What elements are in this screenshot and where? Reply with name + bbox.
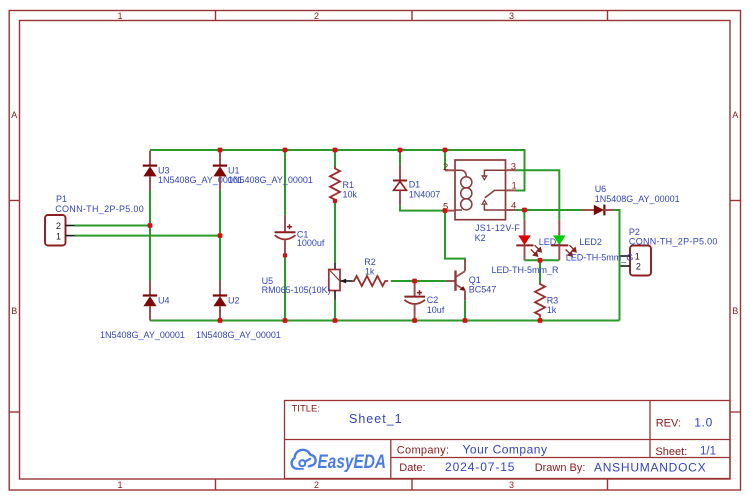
wire R3 bottom	[539, 318, 541, 321]
junction U1 top rail	[218, 148, 223, 153]
pin 1 of P1	[66, 235, 75, 237]
svg-text:10k: 10k	[343, 190, 358, 200]
junction C2 bottom rail	[412, 318, 417, 323]
pin 4 of K2 contact	[506, 209, 516, 211]
pin 2 of P2	[621, 265, 631, 267]
svg-text:10uf: 10uf	[427, 305, 445, 315]
diode U1	[213, 151, 313, 191]
LED LED1	[492, 220, 562, 275]
svg-text:B: B	[732, 306, 738, 316]
svg-text:Date:: Date:	[399, 462, 425, 474]
svg-text:P1: P1	[56, 194, 67, 204]
svg-text:JS1-12V-F: JS1-12V-F	[475, 223, 520, 233]
svg-text:REV:: REV:	[656, 418, 681, 430]
pin 3 of K2 contact	[506, 169, 516, 171]
transistor Q1	[446, 260, 497, 301]
svg-text:1: 1	[117, 480, 122, 490]
svg-text:B: B	[11, 306, 17, 316]
svg-text:R1: R1	[343, 180, 355, 190]
svg-text:RM065-105(10K): RM065-105(10K)	[262, 285, 331, 295]
emission arrows of LED1	[531, 245, 542, 256]
svg-text:1N5408G_AY_00001: 1N5408G_AY_00001	[595, 194, 680, 204]
junction U5 bottom rail	[333, 318, 338, 323]
svg-text:LED2: LED2	[579, 237, 602, 247]
svg-text:2: 2	[443, 162, 448, 173]
wire D1 top	[399, 150, 401, 165]
svg-text:2: 2	[314, 480, 319, 490]
junction C1 top rail	[283, 148, 288, 153]
svg-text:CONN-TH_2P-P5.00: CONN-TH_2P-P5.00	[55, 204, 144, 214]
svg-text:R3: R3	[547, 295, 559, 305]
wire relay pin3 to LED2	[516, 170, 560, 220]
coil of K2	[455, 170, 472, 210]
wire C1 top	[284, 150, 286, 215]
svg-text:U1: U1	[228, 166, 240, 176]
junction Q1 emitter bottom rail	[463, 318, 468, 323]
svg-text:3: 3	[509, 11, 514, 21]
wire R1 to U5	[334, 201, 336, 263]
wire relay pin5 to Q1 collector	[445, 211, 465, 261]
pin 2 of P1	[66, 225, 75, 227]
junction K2 pin2 top rail	[443, 148, 448, 153]
wire U5 bottom	[334, 300, 336, 321]
svg-text:1: 1	[117, 11, 122, 21]
svg-text:R2: R2	[364, 257, 376, 267]
svg-text:3: 3	[511, 162, 516, 173]
svg-text:Sheet_1: Sheet_1	[349, 412, 403, 426]
wire bottom rail	[150, 320, 620, 322]
svg-text:U3: U3	[158, 166, 170, 176]
svg-text:LED-TH-5mm_R: LED-TH-5mm_R	[492, 265, 560, 275]
wire D1 bottom to relay pin5	[400, 205, 445, 210]
svg-text:A: A	[11, 110, 17, 120]
svg-text:Company:: Company:	[397, 444, 450, 456]
resistor R3	[535, 283, 558, 318]
svg-text:ANSHUMANDOCX: ANSHUMANDOCX	[594, 461, 706, 475]
junction R1 top rail	[333, 148, 338, 153]
wire U6 to P2 and bottom rail	[614, 210, 619, 321]
diode U2	[196, 281, 281, 341]
pin 1 of K2 contact arm	[506, 189, 516, 191]
svg-text:EasyEDA: EasyEDA	[318, 452, 387, 473]
wiper arrow of U5	[341, 280, 353, 282]
wire bridge left column	[149, 191, 151, 281]
svg-text:Sheet:: Sheet:	[655, 446, 687, 458]
connector P1	[45, 194, 144, 246]
svg-text:1: 1	[635, 251, 640, 261]
svg-text:U4: U4	[158, 296, 170, 306]
diode U4	[100, 281, 185, 341]
wire C1 bottom	[284, 255, 286, 320]
svg-text:1k: 1k	[365, 267, 375, 277]
diode U3	[143, 151, 243, 191]
junction C1 bottom rail	[283, 318, 288, 323]
junction P1 pin2 bridge	[148, 223, 153, 228]
junction LED link R3	[538, 258, 543, 263]
resistor R2	[352, 257, 388, 286]
diode U6	[582, 184, 680, 215]
svg-text:Drawn By:: Drawn By:	[535, 462, 586, 474]
svg-text:3: 3	[509, 480, 514, 490]
wire LED1 drop	[523, 210, 525, 220]
capacitor C2	[404, 281, 444, 319]
svg-text:1N5408G_AY_00001: 1N5408G_AY_00001	[100, 330, 185, 340]
svg-text:U2: U2	[228, 296, 240, 306]
emission arrows of LED2	[566, 245, 577, 256]
junction dots	[148, 148, 543, 323]
svg-text:1000uf: 1000uf	[297, 238, 325, 248]
wire LED bottom link	[525, 259, 560, 261]
junction K2 pin4 LED1	[522, 208, 527, 213]
svg-text:1k: 1k	[547, 305, 557, 315]
pin-end dot below C1	[283, 253, 287, 257]
svg-text:C2: C2	[427, 295, 439, 305]
wire C2 bottom tip	[414, 319, 416, 321]
svg-text:2: 2	[56, 221, 61, 231]
junction C2 base wire	[412, 279, 417, 284]
wire R1 top	[334, 150, 336, 167]
diode D1	[393, 165, 440, 206]
wire top rail	[150, 150, 525, 191]
svg-text:2: 2	[314, 11, 319, 21]
svg-text:BC547: BC547	[469, 285, 497, 295]
junction D1 top rail	[398, 148, 403, 153]
pin 2 of K2	[445, 169, 455, 171]
wire P1 pin1 to bridge	[75, 235, 221, 237]
svg-text:1/1: 1/1	[700, 446, 716, 458]
svg-text:4: 4	[511, 200, 516, 211]
wire P1 pin2 to bridge	[75, 225, 151, 227]
svg-text:Your Company: Your Company	[463, 442, 548, 456]
svg-text:2024-07-15: 2024-07-15	[445, 460, 515, 474]
EasyEDA logo	[292, 450, 386, 473]
svg-text:U6: U6	[595, 184, 607, 194]
wire bridge right column	[219, 191, 221, 281]
svg-text:D1: D1	[409, 180, 421, 190]
svg-text:CONN-TH_2P-P5.00: CONN-TH_2P-P5.00	[629, 236, 718, 246]
potentiometer U5	[262, 263, 352, 300]
connector P2	[621, 227, 718, 275]
svg-text:LED-TH-5mm_G: LED-TH-5mm_G	[566, 252, 634, 262]
junction R3 bottom rail	[538, 318, 543, 323]
resistor R1	[330, 167, 358, 202]
svg-text:1.0: 1.0	[694, 416, 713, 430]
wire Q1 emitter down	[464, 300, 466, 320]
junction K2 pin5	[443, 208, 448, 213]
svg-text:1: 1	[56, 232, 61, 242]
svg-text:K2: K2	[475, 233, 486, 243]
pin 1 of P2	[621, 255, 631, 257]
relay K2	[443, 160, 520, 243]
wire relay pin2 drop	[444, 150, 446, 170]
junction P1 pin1 bridge	[218, 233, 223, 238]
svg-text:2: 2	[636, 261, 641, 271]
svg-text:A: A	[732, 110, 738, 120]
svg-text:1: 1	[512, 181, 517, 192]
svg-text:1N5408G_AY_00001: 1N5408G_AY_00001	[228, 175, 313, 185]
svg-text:TITLE:: TITLE:	[292, 404, 321, 415]
wire relay pin4 to U6	[516, 209, 582, 211]
pin-end dot below R1	[333, 199, 337, 203]
wire R2 to Q1 base	[391, 280, 446, 282]
TITLE BLOCK	[285, 401, 741, 479]
junction U2 bottom rail	[218, 318, 223, 323]
svg-text:1N5408G_AY_00001: 1N5408G_AY_00001	[196, 330, 281, 340]
wire R3 top	[539, 260, 541, 282]
svg-text:1N4007: 1N4007	[409, 190, 441, 200]
pin 5 of K2	[445, 210, 455, 212]
LED LED2	[551, 220, 602, 260]
capacitor C1	[275, 215, 325, 256]
